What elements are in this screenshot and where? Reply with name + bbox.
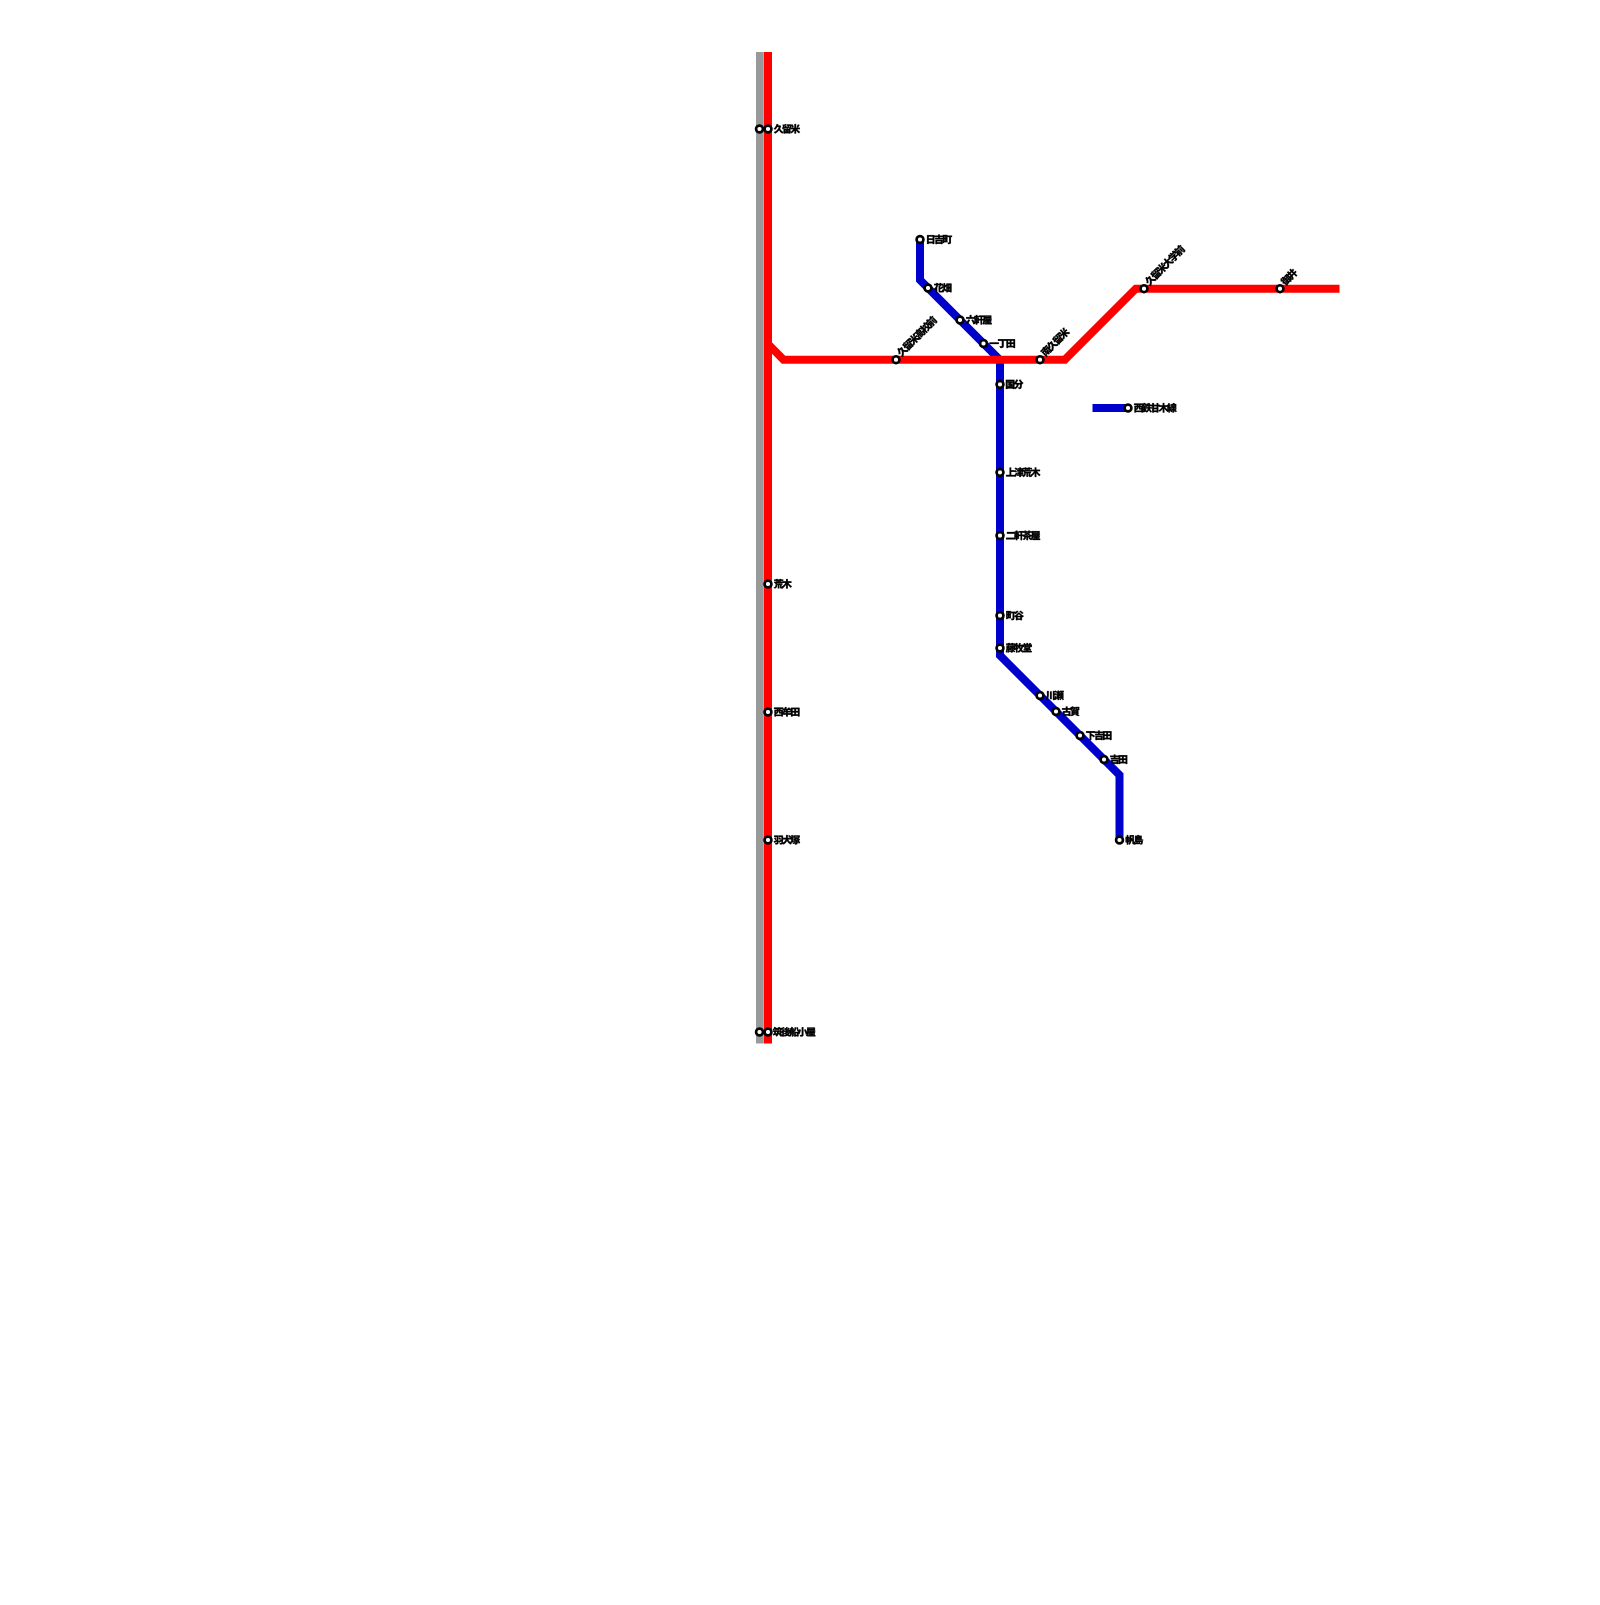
station Chikugo-Funagoya (Shinkansen)	[756, 1029, 763, 1036]
legend label Nishitetsu Amagi Line	[1134, 403, 1177, 413]
station label Rokkenya	[966, 315, 992, 325]
station Itchoda	[980, 340, 987, 347]
station Chikugo-Funagoya (main line)	[765, 1029, 772, 1036]
station Kurume (Shinkansen)	[756, 126, 763, 133]
station label Mii (diagonal)	[1279, 267, 1298, 286]
station Hanabatake	[925, 285, 932, 292]
Shinkansen line (gray, vertical)	[756, 52, 764, 1044]
station label Hojima	[1126, 835, 1144, 845]
station Shimo-Yoshida	[1077, 732, 1084, 739]
station label Kurume-Daigaku-mae (diagonal)	[1143, 244, 1186, 287]
station label Fujimakido	[1006, 643, 1032, 653]
station label Hanabatake	[934, 283, 952, 293]
station label Yoshida	[1110, 755, 1127, 765]
station Nikenchaya	[997, 532, 1004, 539]
station label Chikugo-Funagoya	[773, 1027, 816, 1037]
station label Kurume-Koko-mae (diagonal)	[895, 315, 938, 358]
station label Hiyoshimachi	[927, 235, 952, 245]
station Kokubu	[997, 381, 1004, 388]
blue line (Hiyoshimachi - Hojima)	[920, 240, 1120, 843]
station Kawase	[1037, 692, 1044, 699]
station Kamitsu-Araki	[997, 469, 1004, 476]
station label Itchoda	[990, 339, 1016, 348]
station Mii	[1277, 285, 1284, 292]
station Hiyoshimachi	[917, 236, 924, 243]
station label Hainuzuka	[774, 835, 800, 845]
station label Kurume	[774, 124, 800, 134]
station label Kamitsu-Araki	[1006, 467, 1040, 477]
station Hainuzuka	[765, 837, 772, 844]
red main line (vertical)	[764, 52, 772, 1044]
legend station marker	[1125, 405, 1132, 412]
station Araki	[765, 581, 772, 588]
station label Nikenchaya	[1006, 531, 1040, 541]
station Fujimakido	[997, 645, 1004, 652]
station label Araki	[774, 579, 792, 589]
station label Kokubu	[1006, 380, 1024, 390]
station Koga	[1053, 708, 1060, 715]
station Kurume-Daigaku-mae	[1141, 285, 1148, 292]
station label Minami-Kurume (diagonal)	[1040, 326, 1071, 357]
station Yoshida	[1101, 756, 1108, 763]
legend blue line segment	[1093, 404, 1129, 412]
station Hojima	[1116, 837, 1123, 844]
station Minami-Kurume	[1037, 356, 1044, 363]
station Nishimuta	[765, 709, 772, 716]
red branch line (wye junction, east)	[768, 289, 1340, 360]
station label Kawase	[1046, 691, 1064, 701]
station Kurume-Koko-mae	[893, 356, 900, 363]
station Kurume (main line)	[765, 126, 772, 133]
station Rokkenya	[957, 317, 964, 324]
station label Koga	[1062, 707, 1079, 717]
station Machiya	[997, 612, 1004, 619]
station label Machiya	[1006, 611, 1024, 620]
station label Nishimuta	[774, 707, 799, 717]
station label Shimo-Yoshida	[1086, 731, 1111, 741]
